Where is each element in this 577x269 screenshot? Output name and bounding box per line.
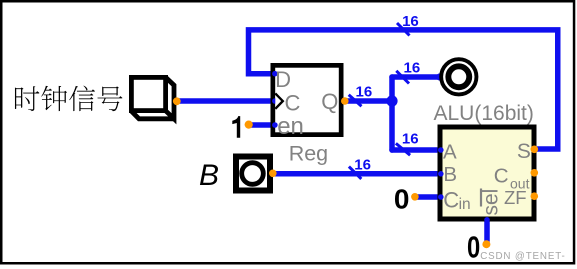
register Reg box	[273, 65, 341, 134]
svg-text:0: 0	[394, 183, 410, 214]
wire vertical branch	[389, 77, 395, 150]
svg-text:C: C	[494, 165, 509, 188]
dot constant 0 Cin	[411, 193, 419, 201]
cap at ALU sel	[484, 217, 490, 223]
svg-text:S: S	[517, 140, 531, 163]
svg-text:out: out	[510, 175, 530, 191]
cap at ALU A	[438, 147, 444, 153]
svg-text:sel: sel	[480, 189, 503, 216]
svg-text:16: 16	[354, 157, 371, 174]
probe wire end cap	[436, 73, 443, 80]
bus width labels 16	[354, 13, 420, 174]
slash B wire	[349, 167, 361, 179]
dot ZF	[531, 192, 539, 200]
cap at Reg en	[272, 122, 278, 128]
wire Q output	[345, 98, 392, 104]
slash lower branch	[396, 143, 410, 155]
pin connection dots (orange)	[173, 97, 538, 248]
ALU pin labels	[443, 140, 531, 213]
dot S	[531, 146, 539, 154]
svg-text:C: C	[443, 187, 459, 212]
svg-text:16: 16	[404, 60, 421, 77]
wire upper branch to probe	[392, 74, 441, 80]
dot Cout	[531, 169, 539, 177]
cap at ALU Cin	[438, 194, 444, 200]
wire end caps inside Reg	[272, 71, 278, 128]
cap at ALU B	[438, 171, 444, 177]
svg-text:CSDN @TENET-: CSDN @TENET-	[480, 251, 565, 262]
svg-text:in: in	[459, 196, 471, 213]
svg-text:16: 16	[402, 13, 419, 30]
wire feedback loop D to S	[249, 30, 558, 149]
dot clock output	[173, 97, 181, 105]
dot B button output	[269, 170, 277, 178]
svg-text:ALU(16bit): ALU(16bit)	[434, 102, 534, 125]
char 号	[97, 86, 122, 111]
bus slash marks	[349, 23, 410, 179]
Reg pin labels	[275, 67, 338, 140]
dot sel bottom	[482, 240, 490, 248]
char 时	[15, 86, 39, 111]
svg-text:Reg: Reg	[289, 141, 328, 165]
dot Q output	[341, 97, 349, 105]
wire en stub from constant 1	[249, 122, 274, 128]
svg-text:B: B	[443, 163, 457, 186]
svg-text:A: A	[443, 140, 457, 163]
cap at Reg D	[272, 71, 278, 77]
clock triangle on C pin	[275, 93, 283, 108]
slash upper branch	[396, 71, 409, 84]
input B button symbol	[236, 157, 270, 191]
junction node	[386, 95, 397, 106]
constant 1	[232, 116, 240, 138]
svg-text:Q: Q	[321, 89, 338, 114]
wire clock to Reg C	[178, 98, 274, 104]
时钟信号 clock-signal label (drawn as paths)	[15, 86, 122, 112]
slash Q wire	[349, 95, 362, 106]
wire sel stub	[484, 221, 490, 241]
char 钟	[41, 86, 67, 111]
svg-text:16: 16	[356, 83, 373, 100]
slash top wire	[397, 23, 410, 36]
cap at Reg C	[272, 98, 278, 104]
char 信	[69, 86, 95, 112]
svg-text:0: 0	[467, 230, 480, 265]
wire Cin stub from constant 0	[415, 194, 440, 200]
wire B to ALU B	[275, 171, 440, 177]
svg-text:B: B	[199, 159, 219, 192]
clock source symbol (3D box)	[131, 77, 174, 118]
wire end caps over component fills	[438, 147, 490, 222]
svg-text:16: 16	[402, 131, 419, 148]
wire lower branch to ALU A	[392, 147, 440, 153]
svg-text:en: en	[277, 113, 304, 140]
svg-text:D: D	[275, 67, 291, 92]
dot constant 1	[245, 121, 253, 129]
ALU box	[440, 127, 534, 219]
output probe (double ring)	[441, 59, 476, 94]
svg-text:C: C	[285, 90, 301, 115]
